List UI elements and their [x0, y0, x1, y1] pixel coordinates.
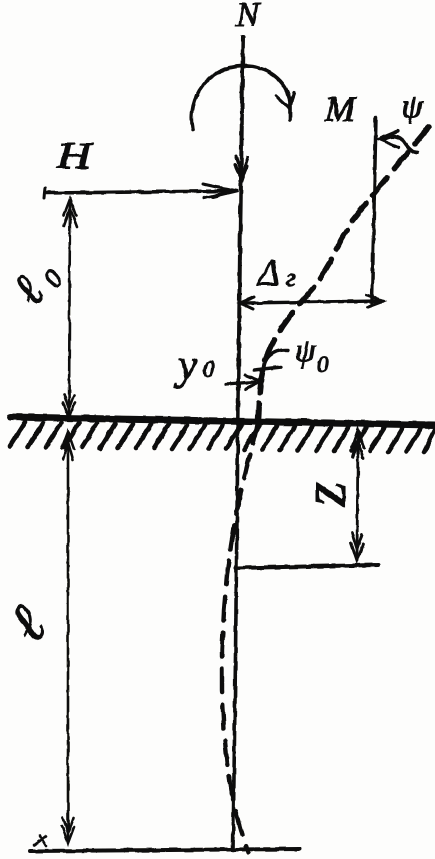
svg-text:N: N	[235, 0, 261, 34]
moment arc M	[192, 66, 290, 130]
dimension l0 bottom arrowhead	[63, 394, 75, 418]
psi0 tick bar	[254, 367, 281, 370]
y0 arrow	[226, 382, 255, 384]
svg-text:0: 0	[203, 357, 215, 382]
label l	[0, 594, 59, 654]
deflected axis below ground (dashed)	[222, 420, 258, 852]
z bottom arrowhead	[351, 533, 363, 561]
Delta_g left arrowhead	[240, 297, 254, 309]
moment arc arrowhead	[276, 93, 294, 108]
dimension Delta_g line	[240, 301, 383, 303]
dimension l line	[67, 433, 70, 842]
z depth level line	[236, 565, 378, 568]
ground line	[10, 417, 435, 425]
dimension z line	[357, 431, 358, 560]
dimension l0 top arrowhead	[64, 199, 77, 227]
pile axis (below ground)	[233, 424, 238, 850]
svg-text:Δ: Δ	[256, 253, 280, 294]
vertical reference line (top right)	[372, 117, 376, 303]
Delta_g right arrowhead	[367, 295, 383, 307]
svg-text:H: H	[56, 136, 94, 177]
z top arrowhead	[352, 430, 364, 458]
svg-text:0: 0	[317, 352, 329, 377]
psi angle arrow	[383, 136, 417, 153]
svg-text:z: z	[291, 482, 359, 507]
svg-text:y: y	[174, 342, 198, 389]
dimension l0 line	[69, 200, 70, 417]
bottom tick	[34, 836, 46, 846]
svg-text:M: M	[324, 89, 357, 129]
ground hatching	[10, 422, 435, 452]
pile axis (vertical solid line, above ground)	[238, 37, 243, 424]
force H arrow	[45, 191, 232, 193]
deflected axis (dashed curve)	[258, 127, 429, 420]
psi0 hook arrow	[264, 350, 288, 371]
dimension l bottom arrowhead	[62, 817, 74, 843]
svg-text:ψ: ψ	[402, 89, 423, 125]
force N arrowhead	[235, 156, 248, 181]
svg-text:ψ: ψ	[295, 333, 316, 369]
bottom reference line	[30, 849, 300, 851]
force H label	[56, 136, 94, 177]
label l0	[2, 250, 69, 315]
svg-text:г: г	[286, 265, 296, 292]
dimension l top arrowhead	[62, 432, 74, 460]
